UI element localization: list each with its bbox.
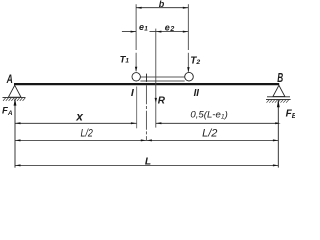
svg-text:L: L [145,156,151,167]
svg-text:I: I [131,87,135,99]
svg-text:A: A [6,74,13,86]
svg-text:e: e [165,23,170,33]
svg-text:II: II [194,87,200,99]
svg-text:L/2: L/2 [81,128,93,140]
svg-text:R: R [158,96,166,107]
svg-text:2: 2 [169,26,174,33]
svg-text:0,5(L-e1): 0,5(L-e1) [190,109,227,120]
svg-text:T2: T2 [190,56,200,67]
svg-text:1: 1 [144,25,148,32]
svg-text:b: b [159,0,165,9]
svg-text:B: B [277,71,283,85]
svg-text:L/2: L/2 [202,128,217,140]
svg-text:FB: FB [286,108,295,120]
svg-text:FA: FA [2,106,13,117]
svg-text:x: x [75,110,84,124]
svg-text:T1: T1 [120,54,130,65]
